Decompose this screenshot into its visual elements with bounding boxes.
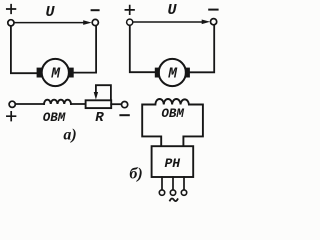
rheostat wiper arrow and loop bbox=[96, 85, 111, 99]
svg-text:R: R bbox=[95, 110, 104, 126]
terminal - (a top-right) bbox=[92, 19, 98, 25]
wire U right with arrow bbox=[133, 21, 203, 23]
voltage regulator PH box bbox=[152, 146, 194, 177]
wire U with arrow bbox=[14, 22, 84, 24]
motor M1 circle bbox=[42, 59, 69, 86]
terminal - (field row right) bbox=[122, 102, 128, 108]
plus label field row bbox=[7, 112, 16, 121]
svg-text:U: U bbox=[45, 4, 55, 21]
brush right M1 bbox=[69, 68, 74, 78]
minus label field row bbox=[120, 114, 128, 116]
arrowhead bbox=[83, 20, 92, 25]
svg-text:M: M bbox=[167, 67, 178, 83]
field winding OVM coil bbox=[44, 100, 71, 104]
brush left M1 bbox=[37, 68, 42, 78]
AC terminal 2 bbox=[170, 190, 175, 195]
terminal + (a top-left) bbox=[8, 20, 14, 26]
wire coil to R bbox=[71, 103, 86, 105]
wire to coil bbox=[16, 103, 44, 105]
terminal - (b top-right) bbox=[211, 19, 217, 25]
plus label (top right supply +) bbox=[125, 6, 134, 15]
plus label (top left supply +) bbox=[7, 5, 16, 14]
terminal + (field row left) bbox=[9, 101, 15, 107]
OVM box with coil top and neck bottom bbox=[142, 99, 203, 146]
svg-text:U: U bbox=[167, 2, 177, 19]
arrowhead right bbox=[202, 20, 211, 25]
minus label top right bbox=[209, 9, 217, 11]
AC terminal 3 bbox=[181, 190, 186, 195]
wire R to terminal bbox=[111, 103, 121, 105]
wiper arrowhead bbox=[94, 92, 98, 100]
svg-text:РН: РН bbox=[164, 156, 180, 171]
wire left down to motor b bbox=[130, 26, 155, 73]
svg-text:а): а) bbox=[63, 127, 76, 144]
wire left down to motor bbox=[11, 26, 37, 73]
rheostat R body bbox=[86, 100, 112, 108]
terminal + (b top-left) bbox=[127, 19, 133, 25]
motor M2 circle bbox=[159, 59, 186, 86]
svg-text:M: M bbox=[50, 67, 61, 83]
wire motor right up b bbox=[190, 25, 214, 72]
brush right M2 bbox=[185, 68, 190, 78]
svg-text:ОВМ: ОВМ bbox=[161, 107, 184, 121]
AC terminal 1 bbox=[159, 190, 164, 195]
svg-text:ОВМ: ОВМ bbox=[43, 111, 66, 125]
brush left M2 bbox=[155, 68, 160, 78]
stub wires to AC terminals bbox=[162, 177, 184, 190]
minus label (top left circuit) bbox=[92, 9, 99, 11]
AC tilde symbol bbox=[170, 199, 178, 202]
wire motor right up bbox=[74, 26, 96, 73]
svg-text:б): б) bbox=[129, 165, 142, 182]
